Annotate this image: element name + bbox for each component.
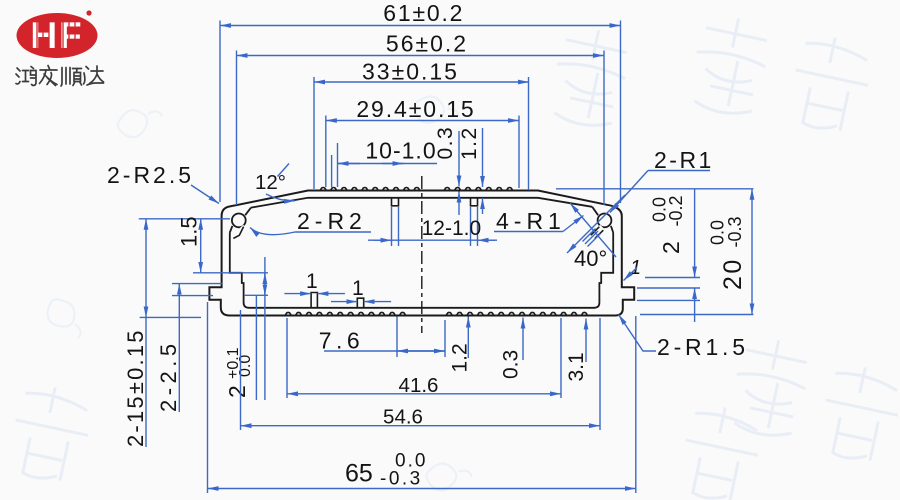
dim 20 bottom ext — [640, 314, 753, 316]
svg-text:2-R1: 2-R1 — [654, 147, 714, 173]
ceiling rib right pair — [471, 198, 478, 206]
svg-text:1.2: 1.2 — [449, 343, 472, 372]
svg-text:4-R1: 4-R1 — [496, 208, 566, 234]
dim 12-1.0 ext lines — [391, 207, 393, 246]
svg-text:0.3: 0.3 — [434, 126, 457, 160]
char da — [84, 66, 104, 85]
svg-text:0.3: 0.3 — [500, 350, 523, 379]
dim 10-1.0 ext lines — [331, 155, 333, 187]
svg-text:12°: 12° — [255, 171, 286, 194]
logo ellipse HF — [17, 10, 98, 58]
svg-text:29.4±0.15: 29.4±0.15 — [356, 96, 475, 122]
40deg diagonal B — [570, 203, 616, 257]
dim 33 line — [314, 81, 529, 83]
dim 33 ext left — [313, 77, 315, 189]
dim 56 line — [237, 55, 605, 57]
floor rib 1 — [311, 293, 317, 308]
dim 56 ext left — [236, 51, 238, 206]
svg-text:-0.2: -0.2 — [666, 195, 686, 226]
svg-text:HF: HF — [30, 15, 83, 56]
dim 29.4 line — [326, 120, 519, 122]
svg-text:41.6: 41.6 — [399, 374, 439, 397]
svg-text:2: 2 — [224, 385, 250, 398]
dim 2+0.1 ext — [243, 272, 268, 274]
right screw boss — [591, 207, 613, 239]
svg-text:2-R1.5: 2-R1.5 — [657, 334, 749, 360]
dim 12deg leader — [266, 194, 295, 201]
inner cavity walls and floor — [230, 233, 613, 308]
dim 0.3 bottom — [522, 318, 524, 361]
svg-text:40°: 40° — [574, 246, 607, 271]
svg-text:54.6: 54.6 — [383, 406, 423, 429]
dim 7.6 line — [324, 350, 445, 352]
dim 20 top ext — [556, 188, 753, 190]
char hong — [16, 67, 36, 86]
svg-text:12-1.0: 12-1.0 — [422, 217, 482, 240]
dim 61 ext left — [219, 21, 221, 203]
dim 2-0.2 line — [694, 189, 696, 278]
dim 12-1.0 line — [368, 239, 497, 241]
dim 7.6 ext — [396, 317, 398, 358]
dim 61 ext right — [620, 21, 622, 204]
svg-text:56±0.2: 56±0.2 — [386, 31, 468, 57]
dim 41.6 ext — [286, 318, 288, 398]
svg-text:61±0.2: 61±0.2 — [383, 0, 464, 26]
ceiling rib left pair — [392, 198, 399, 206]
dim 0.3 top leader — [458, 131, 460, 187]
bottom serration band left — [285, 312, 410, 315]
left screw boss — [230, 208, 251, 239]
dim 2-15 bottom ext — [140, 316, 201, 318]
dim 41.6 line — [287, 393, 561, 395]
dim 2-15 line — [145, 219, 147, 318]
dim 1.2 bottom — [467, 317, 469, 359]
40deg diagonal A — [567, 195, 625, 253]
dim 2-2.5 ext — [172, 283, 222, 285]
dim 1.5 ext — [193, 272, 242, 274]
dim 2-15 top ext — [139, 218, 230, 220]
svg-text:3.1: 3.1 — [565, 352, 588, 381]
svg-text:65: 65 — [345, 460, 373, 488]
svg-text:2: 2 — [658, 241, 684, 254]
vertical centerline — [421, 176, 423, 333]
dim 2-0.2 ext lines — [645, 277, 700, 279]
dim 2+0.1 line — [264, 257, 266, 400]
dim 29.4 ext left — [325, 116, 327, 188]
dim 1.2 top leader — [482, 128, 484, 187]
floor rib dim 1b arrows — [331, 301, 357, 303]
char shun — [61, 68, 82, 87]
dim 2-2.5 line — [178, 284, 180, 412]
dim 33 ext right — [528, 77, 530, 190]
svg-text:1: 1 — [306, 270, 318, 293]
dim 20 line — [751, 189, 753, 315]
svg-text:2-15±0.15: 2-15±0.15 — [123, 328, 148, 447]
dim 65 line — [208, 488, 636, 490]
bottom serration band right — [446, 312, 592, 315]
svg-text:7.6: 7.6 — [319, 328, 364, 354]
svg-text:1.2: 1.2 — [458, 126, 481, 160]
svg-text:20: 20 — [719, 257, 747, 290]
top serration band right — [444, 188, 517, 191]
svg-text:10-1.0: 10-1.0 — [365, 138, 436, 164]
dim 3.1 bottom — [585, 319, 587, 363]
floor rib 2 — [357, 298, 363, 308]
top serration band left — [320, 188, 424, 191]
dim 54.6 line — [241, 425, 601, 427]
dim 65 ext — [207, 302, 209, 493]
svg-text:-0.3: -0.3 — [725, 216, 745, 247]
dim 61 line — [220, 25, 621, 27]
char fa — [40, 66, 58, 86]
dim 29.4 ext right — [518, 116, 520, 189]
inner ceiling line — [251, 198, 592, 208]
logo chinese characters (hand drawn strokes) — [16, 66, 104, 87]
svg-text:-0.3: -0.3 — [380, 469, 423, 490]
svg-text:33±0.15: 33±0.15 — [362, 59, 459, 85]
svg-text:2-R2: 2-R2 — [297, 208, 367, 234]
svg-text:1: 1 — [352, 277, 364, 300]
svg-text:2-R2.5: 2-R2.5 — [107, 162, 194, 188]
dim 56 ext right — [603, 51, 605, 206]
dim 10-1.0 line — [338, 163, 438, 165]
dim 1.5 line — [200, 219, 202, 273]
floor rib dim 1 arrows — [284, 293, 311, 295]
profile outer contour — [209, 191, 634, 316]
svg-text:1.5: 1.5 — [177, 216, 202, 247]
dim 54.6 ext — [240, 310, 242, 430]
svg-text:2-2.5: 2-2.5 — [156, 339, 181, 412]
40deg hatch — [583, 229, 601, 247]
svg-text:0.0: 0.0 — [237, 355, 254, 377]
